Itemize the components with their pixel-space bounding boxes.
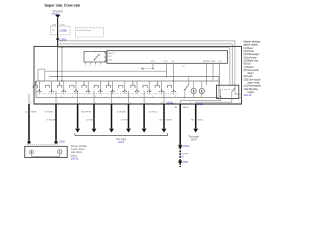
outer box bottom edge emphasis — [34, 103, 242, 105]
switch SW12 wiper wire — [173, 81, 175, 94]
dashed mechanical linkage across switch row — [36, 93, 178, 95]
svg-text:GN WH/YE: GN WH/YE — [81, 112, 92, 114]
svg-text:VTH: VTH — [151, 61, 156, 63]
K1 switch blade — [232, 88, 236, 92]
switch SW11 contact dots — [159, 91, 160, 92]
illumination lamp E1 — [191, 88, 196, 93]
switch SW4 contact dots — [74, 91, 75, 92]
off-page connector arrow into feed wire — [55, 15, 60, 18]
wire: relay blade to wire X2 — [196, 99, 232, 104]
S1 contact dots — [94, 59, 95, 60]
svg-text:This page: This page — [179, 153, 189, 155]
wire: top routing inner line — [58, 48, 230, 85]
wire X1 tail dashed — [179, 163, 181, 167]
svg-text:24 RD/BK: 24 RD/BK — [117, 112, 127, 114]
connector square on W-left1 — [28, 141, 31, 144]
one-touch down relay K1 box — [217, 85, 239, 98]
junction dot VCC/bus1 — [166, 76, 167, 77]
motor internal wiring — [32, 154, 60, 156]
switch SW4 wiper wire — [75, 81, 77, 94]
wire to lock switch — [188, 77, 190, 85]
svg-text:4: 4 — [49, 96, 50, 98]
switch SW7 rocker arch — [106, 85, 110, 88]
switch SW10 rocker arch — [143, 85, 147, 88]
junction dot x62/B2 — [61, 80, 62, 81]
svg-text:3: 3 — [90, 66, 91, 68]
switch SW6 wiper wire — [99, 81, 101, 94]
switch SW9 contact dots — [135, 91, 136, 92]
svg-text:C2013: C2013 — [182, 145, 190, 148]
connector square on W-left2 — [55, 141, 58, 144]
wire: relay pin to wire X1 — [180, 99, 220, 104]
bracket grouping arrows — [75, 133, 168, 135]
svg-text:RD/BK: RD/BK — [166, 119, 173, 121]
wire W-left2 drop to motor — [55, 104, 57, 141]
switch SW9 wiper wire — [136, 81, 138, 94]
wires below lamps to inner box bottom — [193, 94, 195, 98]
wire: feed continues inside box — [57, 46, 59, 81]
junction dot feed/B1 — [57, 76, 58, 77]
svg-text:5: 5 — [95, 96, 96, 98]
wire: thin continuations to box bottom — [29, 91, 164, 104]
wire: battery feed vertical from connector to switch box — [57, 18, 59, 47]
wire: RUN pin drop — [212, 63, 214, 81]
svg-text:C280B: C280B — [59, 29, 67, 32]
switch SW2 rocker arch — [45, 85, 49, 88]
wire W-left1 drop to motor — [28, 104, 30, 141]
illumination lamp E2 — [199, 88, 204, 93]
svg-text:2: 2 — [99, 59, 100, 61]
svg-text:YE/LG: YE/LG — [183, 107, 189, 109]
svg-text:a: a — [175, 102, 176, 104]
svg-text:3: 3 — [57, 102, 58, 104]
dashed mechanical linkage with arrow — [142, 68, 153, 70]
bus wire B1 — [49, 76, 219, 78]
switch SW1 rocker arch — [33, 85, 37, 88]
master window switch assembly outer box — [34, 46, 242, 104]
svg-text:104-6: 104-6 — [118, 141, 125, 144]
wire: VCC pin drop — [166, 63, 168, 76]
switch SW10 wiper wire — [148, 81, 150, 94]
switch SW10 contact dots — [147, 91, 148, 92]
window rocker switch contacts row — [33, 81, 172, 88]
K1 coil dashed element — [220, 89, 231, 91]
one-touch switch S1 box — [84, 52, 106, 63]
wire: DN pin drop — [219, 63, 221, 84]
svg-text:1: 1 — [85, 66, 86, 68]
junction box note dashed box — [75, 28, 103, 37]
svg-text:DN: DN — [218, 61, 222, 63]
wire X1 long drop — [179, 104, 181, 145]
svg-text:1: 1 — [79, 102, 80, 104]
svg-text:9: 9 — [118, 96, 119, 98]
connector square C2013 on X1 — [179, 145, 182, 148]
S1 bottom pin stubs — [85, 62, 101, 64]
motor M1 box — [25, 146, 67, 157]
S1 switch blade — [95, 55, 99, 60]
svg-text:DN: DN — [109, 59, 113, 61]
switch SW3 rocker arch — [58, 85, 62, 88]
wire W1 drop with arrow — [77, 104, 79, 128]
svg-text:C518: C518 — [59, 141, 65, 144]
switch SW6 rocker arch — [94, 85, 98, 88]
wire: VTH pin drop — [152, 63, 154, 68]
svg-text:YE/LG: YE/LG — [197, 119, 203, 121]
svg-text:87: 87 — [184, 98, 186, 100]
switch SW5 rocker arch — [82, 85, 86, 88]
svg-text:8: 8 — [72, 96, 73, 98]
svg-text:57 TN/LB: 57 TN/LB — [45, 112, 54, 114]
switch SW1 wiper wire — [38, 81, 40, 94]
wire: top routing bus to relay (outermost) — [58, 41, 239, 94]
K1 coil pin wire — [220, 90, 222, 99]
motor M1 right commutator circle — [58, 150, 62, 154]
connector C280b tick on feed wire — [56, 38, 59, 39]
wire W4 drop with arrow — [128, 104, 130, 128]
wire W2 drop with arrow — [93, 104, 95, 128]
wire: HPWR pin drop — [206, 63, 208, 84]
svg-text:110-4: 110-4 — [191, 139, 198, 142]
wire from L1 to feed — [45, 70, 167, 72]
svg-text:6: 6 — [61, 96, 62, 98]
wire to lamp E2 — [201, 81, 203, 88]
svg-text:4: 4 — [141, 96, 142, 98]
inner box right edge — [218, 77, 220, 98]
junction dot VTH — [152, 68, 153, 69]
switch SW3 contact dots — [62, 91, 63, 92]
svg-text:UP: UP — [109, 56, 113, 58]
inner box bottom edge — [36, 97, 219, 99]
wire W5 drop with arrow — [143, 104, 145, 128]
junction dot UP/bus2 — [173, 80, 174, 81]
svg-text:ACCY: ACCY — [109, 52, 116, 55]
inner box left edge — [35, 81, 37, 98]
switch SW2 contact dots — [49, 91, 50, 92]
bus wire B2 — [36, 80, 219, 82]
wire W3 drop with arrow — [111, 104, 113, 128]
svg-text:6: 6 — [190, 102, 191, 104]
svg-text:TN/LB: TN/LB — [31, 112, 37, 114]
junction dot x62 top — [61, 47, 62, 48]
wire: UP pin drop — [173, 63, 175, 81]
svg-text:► RD/WH: ► RD/WH — [46, 118, 56, 121]
switch SW6 contact dots — [98, 91, 99, 92]
svg-text:104-15: 104-15 — [244, 94, 252, 97]
K1 stubs to box edge — [239, 93, 242, 95]
switch SW5 wiper wire — [87, 81, 89, 94]
svg-text:RUN: RUN — [211, 61, 216, 63]
switch SW8 contact dots — [123, 91, 124, 92]
svg-text:Fuse/relay box: Fuse/relay box — [77, 29, 92, 32]
wire X1 lower dashed segment — [179, 148, 181, 161]
junction dot feed/71 — [57, 71, 58, 72]
svg-text:7: 7 — [145, 102, 146, 104]
connector boundary dashed above motor — [27, 144, 59, 146]
switch SW4 rocker arch — [70, 85, 74, 88]
svg-text:Super cab, Crew cab: Super cab, Crew cab — [45, 3, 81, 7]
svg-text:1: 1 — [129, 96, 130, 98]
svg-text:VCC: VCC — [164, 61, 169, 63]
svg-text:C505: C505 — [182, 161, 188, 164]
svg-text:57 PK/LB: 57 PK/LB — [121, 119, 130, 121]
svg-text:2: 2 — [38, 96, 39, 98]
svg-text:24 YE/LG: 24 YE/LG — [149, 112, 158, 114]
svg-text:8: 8 — [162, 102, 163, 104]
switch SW12 rocker arch — [167, 85, 171, 88]
fuse F1 dashed junction box boundary — [50, 26, 70, 35]
switch SW8 rocker arch — [119, 85, 123, 88]
svg-text:HPWR: HPWR — [203, 61, 210, 63]
wire: branch vertical x62 — [61, 48, 63, 81]
svg-text:4: 4 — [30, 102, 31, 104]
svg-text:5: 5 — [95, 66, 96, 68]
switch SW9 rocker arch — [131, 85, 135, 88]
svg-text:5: 5 — [95, 102, 96, 104]
svg-text:C510c: C510c — [167, 102, 174, 104]
wire X2 drop with arrow — [195, 104, 197, 128]
wire stubs S1 to U1 — [105, 52, 107, 54]
svg-text:6: 6 — [130, 102, 131, 104]
wire to lamp E1 — [193, 81, 195, 88]
switch SW11 wiper wire — [160, 81, 162, 94]
svg-text:8: 8 — [175, 96, 176, 98]
svg-text:7: 7 — [100, 66, 101, 68]
svg-text:2: 2 — [113, 102, 114, 104]
switch SW11 rocker arch — [155, 85, 159, 88]
svg-text:40-8: 40-8 — [179, 156, 184, 158]
switch SW12 contact dots — [171, 91, 172, 92]
switch SW7 wiper wire — [112, 81, 114, 94]
wire: top routing middle line — [58, 44, 233, 85]
lock switch SW2 blade — [185, 84, 189, 89]
motor M1 left commutator circle — [30, 150, 34, 154]
wire W6 drop with arrow — [163, 104, 165, 128]
svg-text:3: 3 — [84, 96, 85, 98]
switch SW5 contact dots — [86, 91, 87, 92]
one-touch module U1 box — [107, 51, 228, 64]
svg-text:24 TN/LB: 24 TN/LB — [86, 119, 95, 121]
svg-text:104-11: 104-11 — [71, 158, 79, 161]
switch SW7 contact dots — [110, 91, 111, 92]
switch SW2 wiper wire — [51, 81, 53, 94]
connector square C505 on X1 — [179, 160, 182, 163]
svg-text:7: 7 — [106, 96, 107, 98]
switch SW8 wiper wire — [124, 81, 126, 94]
sub box L1 at left — [38, 69, 45, 81]
svg-text:6: 6 — [152, 96, 153, 98]
switch SW1 contact dots — [37, 91, 38, 92]
switch SW3 wiper wire — [63, 81, 65, 94]
svg-text:C510b: C510b — [197, 104, 204, 106]
